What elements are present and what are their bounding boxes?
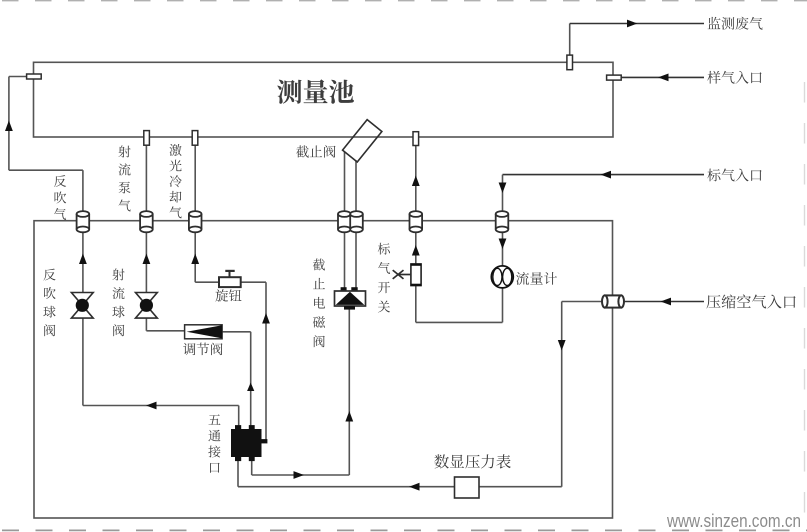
wire: compressed air inlet line <box>624 301 704 303</box>
arrow up std gas upper <box>412 176 420 187</box>
wire: to regulating valve <box>146 330 184 332</box>
label 标气入口 <box>707 169 761 182</box>
measurement cell box 测量池 <box>34 62 614 137</box>
label 样气入口 <box>707 71 761 84</box>
arrow up below solenoid <box>345 411 353 422</box>
wire: knob out right <box>241 281 266 283</box>
cylinder fitting flow meter branch <box>496 214 509 229</box>
pressure gauge 数显压力表 box <box>455 477 480 498</box>
wire: down to block top-left tab <box>238 406 240 426</box>
ball valve 1 反吹球阀 <box>71 293 93 306</box>
wire: y322 horizontal <box>416 321 503 323</box>
page top dashed border <box>2 0 807 2</box>
arrow left on sample inlet line <box>658 74 669 82</box>
wire: exhaust line vertical from cell top <box>569 24 571 63</box>
wire: sample gas inlet line <box>621 76 704 78</box>
wire: solenoid bottom down <box>348 310 350 476</box>
label 压缩空气入口 <box>706 294 795 308</box>
label 激光冷却气 <box>169 144 181 218</box>
wire: laser cooling fitting to cylinder <box>194 145 196 212</box>
ball valve 2 射流球阀 <box>136 293 158 306</box>
wire: monitored exhaust line <box>570 23 704 25</box>
label 监测废气 <box>708 17 763 30</box>
standard gas switch X handle <box>393 270 404 279</box>
arrow right on y475 <box>294 471 305 479</box>
wire: compressed air vertical x561.7 <box>561 302 563 487</box>
wire: blowback down to cylinder <box>82 170 84 212</box>
wire: to knob <box>195 281 219 283</box>
fitting on cell right edge <box>607 75 622 80</box>
horizontal cylinder fitting on enclosure right edge <box>605 295 621 307</box>
wire: jet pump branch fitting to cylinder <box>145 145 147 212</box>
wire: regulating valve out right <box>222 331 251 333</box>
page right dashed border <box>804 82 806 532</box>
wire: gauge line y486.7 <box>238 486 562 488</box>
arrow up on blowback vertical <box>5 121 13 132</box>
five-way block 五通接口 <box>235 425 241 430</box>
arrow left on bottom rail <box>146 402 157 410</box>
standard gas switch handle stem <box>398 274 411 276</box>
fitting on cell top edge <box>567 55 573 70</box>
wire: switch down to y322 <box>415 286 417 323</box>
wire: blowback horizontal y169 <box>9 169 83 171</box>
wire: compressed air to down-leg <box>562 301 603 303</box>
label 流量计 <box>516 272 557 285</box>
label 反吹球阀 <box>43 269 55 337</box>
cylinder fitting std gas <box>410 214 423 229</box>
flow meter 流量计 circle <box>491 266 513 288</box>
cylinder fitting twin right <box>350 214 363 229</box>
solenoid valve 截止电磁阀 <box>341 287 347 291</box>
wire: jet pump cylinder to ball valve 2 <box>145 231 147 292</box>
label 测量池 <box>277 79 354 103</box>
label 数显压力表 <box>434 454 510 468</box>
wire: block tab down to y486.7 <box>237 461 239 487</box>
cylinder fitting 3 laser cooling <box>189 214 202 229</box>
regulating valve 调节阀 <box>185 325 223 339</box>
standard gas switch 标气开关 body <box>411 264 421 286</box>
wire: std gas cylinder to switch <box>415 231 417 264</box>
arrow down above flow meter <box>499 239 507 250</box>
label 射流泵气 <box>118 146 130 212</box>
cylinder fitting twin left <box>338 214 351 229</box>
arrow up below cylinder 3 <box>191 254 199 265</box>
wire: blowback from cell-left fitting <box>9 76 27 78</box>
wire: laser cooling cylinder down <box>194 231 196 282</box>
arrow down on compressed air leg <box>558 340 566 351</box>
wire: block to solenoid horizontal y475 <box>252 474 350 476</box>
fitting std gas on cell bottom <box>413 132 419 146</box>
wire: std gas fitting to cylinder <box>415 145 417 212</box>
lower enclosure box <box>34 221 613 518</box>
wire: standard gas inlet line <box>503 174 705 176</box>
wire: ball valve 2 down <box>145 318 147 331</box>
page bottom dashed border <box>2 529 807 531</box>
arrow up below cylinder 2 <box>143 254 151 265</box>
label 截止阀 <box>296 145 335 157</box>
wire: flow meter up leg <box>502 175 504 323</box>
wire: shutoff valve left line <box>344 152 346 288</box>
label 射流球阀 <box>112 269 124 337</box>
arrow left on compressed air line <box>661 298 672 306</box>
fitting laser cooling on cell bottom <box>192 131 198 146</box>
arrow up below cylinder 1 <box>79 254 87 265</box>
label 调节阀 <box>183 343 222 356</box>
arrow up on knob line <box>262 313 270 324</box>
wire: knob line down to block right tab <box>265 282 267 441</box>
fitting on cell left edge <box>27 74 42 79</box>
arrow up std gas mid <box>412 245 420 256</box>
arrow up on block feed line <box>247 383 254 392</box>
cylinder fitting 2 jet pump <box>140 214 153 229</box>
cylinder fitting 1 blowback <box>77 214 90 229</box>
label 五通接口 <box>208 414 220 472</box>
wire: block tab down to y475 <box>251 461 253 475</box>
arrow left on gauge line <box>409 483 420 491</box>
wire: shutoff valve right line <box>355 160 357 287</box>
wire: blowback left vertical <box>8 77 10 171</box>
label 标气开关 <box>378 243 390 313</box>
label 旋钮 <box>215 289 241 302</box>
arrow down above std cylinder <box>499 183 507 194</box>
wire: bottom rail to five-way block <box>83 405 239 407</box>
arrow left on standard gas line <box>601 171 612 179</box>
wire: ball valve 1 down to bottom rail <box>82 318 84 406</box>
svg-text:www.sinzen.com.cn: www.sinzen.com.cn <box>666 510 801 531</box>
shutoff valve 截止阀 tilted body <box>343 120 382 162</box>
fitting jet pump on cell bottom <box>144 131 150 146</box>
label 反吹气 <box>54 175 66 220</box>
wire: down to block top-right tab <box>250 332 252 426</box>
arrow right on exhaust line <box>627 20 638 28</box>
wire: blowback cylinder to ball valve <box>82 231 84 292</box>
knob 旋钮 <box>229 271 231 277</box>
label 截止电磁阀 <box>313 259 325 348</box>
